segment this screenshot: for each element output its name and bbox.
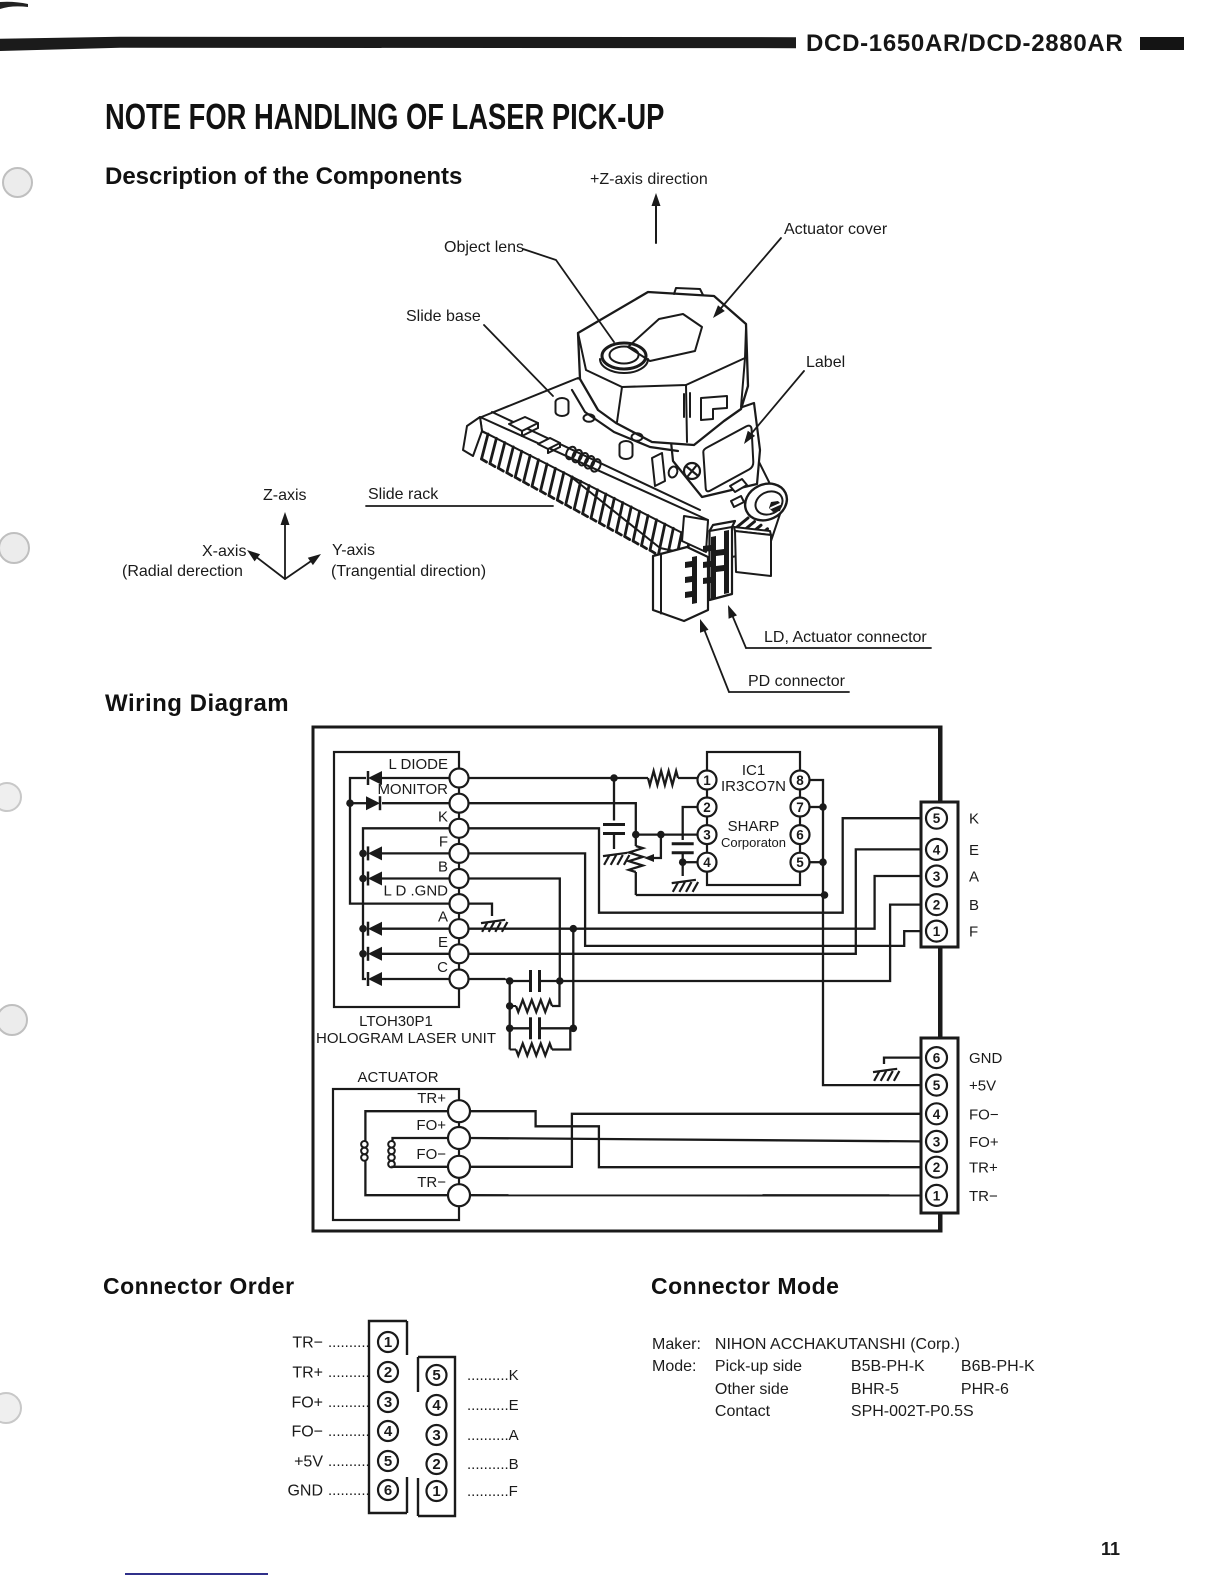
svg-text:..........A: ..........A [467,1427,519,1444]
photodiode F [368,846,382,860]
svg-text:1: 1 [432,1483,440,1500]
svg-text:4: 4 [384,1423,393,1440]
header corner mark [0,0,60,16]
connector J1 pin 1 [926,921,947,942]
connector order left housing (6-pin) [369,1321,407,1513]
PD connector block [653,547,708,621]
junction VR1 top [632,831,640,839]
wire diode E to pin [382,953,450,955]
connector J1 pin 3 [926,866,947,887]
leader Object lens [523,249,614,342]
page title [105,96,664,138]
wire GND pin to ground [884,1058,921,1064]
rail VR1 bottom to +5V junction [636,894,825,896]
wire to capacitor C4 [510,1027,531,1029]
motor cylinder inner [752,487,787,519]
wire diode F to pin [382,852,450,854]
motor cylinder outer [739,477,793,527]
object lens inner [610,347,639,364]
IC1 pin 5 [791,853,810,872]
object lens outer [602,343,646,369]
VR1 wiper arrow [653,835,661,858]
wire C2 to junction [682,853,684,863]
laser diode (L DIODE) [368,771,382,785]
junction pin7 bus [819,803,827,811]
svg-text:..........: .......... [328,1482,370,1499]
slide base front upper edge [492,412,700,510]
connector J2 (actuator side) box [921,1038,958,1213]
connector order right pin 1 (F) [427,1481,447,1501]
wire TR- to J2 pin 1 [470,1194,921,1197]
svg-text:4: 4 [432,1397,441,1414]
laser unit pin F [450,844,469,863]
connector order right pin 4 (E) [427,1395,447,1415]
wire net K [468,818,921,913]
hole punches [2,167,33,198]
leader Slide rack [366,505,553,507]
leader Slide base [484,325,553,396]
wire C4 to A tap [540,1027,574,1029]
ground C1 [603,853,629,865]
wire row F stub [363,852,366,854]
IC1 pin 3 [698,825,717,844]
wire L DIODE diode to pin [382,777,450,779]
variable resistor VR1 [629,846,643,872]
resistor R1 [648,771,678,785]
slide rack teeth [482,434,691,571]
Z axis arrow [284,517,286,579]
wire A tap down [572,929,574,1029]
junction wiper tie [657,831,665,839]
wire R2 up to B junction [552,981,560,1006]
wire tracking coil loop [365,1111,448,1141]
svg-text:5: 5 [384,1453,392,1470]
label sticker [703,426,753,492]
PICKUP DRAWING SVG [0,0,1224,720]
connector order left pin 6 (GND) [378,1480,398,1500]
actuator cover body [578,292,748,445]
connector order left pin 3 (FO+) [378,1392,398,1412]
laser unit pin L DIODE [450,769,469,788]
wire B net to upper connector pin 2 [560,905,921,981]
leader Actuator cover [716,238,781,314]
wire laser-unit bus LD/MONITOR/LD.GND [350,778,450,904]
capacitor C1 [603,823,625,826]
wire VR1 leads [635,835,637,846]
wire diode A to pin [382,928,450,930]
connector J1 pin 4 [926,839,947,860]
wire row B stub [363,877,366,879]
junction C2 / pin4 [679,858,687,866]
junction ladder left bottom [506,1025,514,1033]
connector order right pin 3 (A) [427,1425,447,1445]
capacitor C3 [529,970,532,992]
hologram laser unit box [334,752,459,1007]
junction bus2 at row A [359,925,367,933]
capacitor C2 [672,842,694,845]
wire TR+ to J2 pin 2 [470,1111,921,1167]
actuator box [333,1089,459,1220]
laser unit pin E [450,944,469,963]
svg-text:GND: GND [287,1483,323,1500]
border segment above upper connector [938,727,941,802]
wire diode B to pin [382,877,450,879]
wire MONITOR row to bus [350,802,366,804]
svg-text:..........: .......... [328,1394,370,1411]
wire IC pin 7 stub [809,806,823,808]
wire C node to C3 [510,980,531,982]
IC1 pin 6 [791,825,810,844]
focus coil L2 [388,1141,395,1167]
wire C3 to B junction [540,980,560,982]
LD actuator connector slots [703,530,729,600]
laser unit pin MONITOR [450,794,469,813]
connector J2 pin 1 [926,1185,947,1206]
wire focus coil loop [393,1138,449,1141]
junction on bus at MONITOR row [346,799,354,807]
junction bus2 at row B [359,875,367,883]
connector J2 pin 5 [926,1075,947,1096]
actuator cover side cutout [701,396,727,420]
connector order right housing (5-pin) [418,1357,455,1516]
ground C2 [672,880,698,892]
wire IC pin 8 bus [809,780,921,1085]
cover wedge [628,314,702,361]
wire FO- to J2 pin 4 [470,1114,921,1167]
wire junction to capacitor C1 [613,778,615,821]
svg-text:1: 1 [384,1334,392,1351]
leader Label [746,371,804,440]
slide base notch 2 [538,438,560,449]
ground LD.GND [481,920,507,932]
laser unit pin C [450,970,469,989]
connector order right pin 5 (K) [427,1365,447,1385]
wire row A stub [363,928,366,930]
wire IC pin 2 to C2 [683,807,698,840]
wire net B [468,879,560,982]
connector J2 pin 6 [926,1047,947,1068]
ground GND [873,1069,899,1081]
section: wiring diagram [105,690,289,718]
svg-text:..........: .......... [328,1334,370,1351]
svg-text:+5V: +5V [294,1454,323,1471]
page number [1101,1539,1120,1560]
svg-text:3: 3 [384,1394,392,1411]
wire MONITOR diode to pin [382,802,450,804]
section: description [105,163,462,191]
wire C1 to ground [613,834,615,850]
junction rail / IC bus [821,891,829,899]
photodiode C [368,972,382,986]
junction ladder left mid [506,1002,514,1010]
actuator cover side slits [683,394,685,417]
ladder left rail [509,981,511,1050]
connector order left pin 4 (FO&#8722;) [378,1421,398,1441]
IC1 pin 1 [698,771,717,790]
junction bus2 at row F [359,850,367,858]
svg-text:..........: .......... [328,1364,370,1381]
junction bus2 at row E [359,950,367,958]
label plate outer [670,403,760,497]
connector J1 (photodiode side) box [921,802,958,947]
leader LD, Actuator connector [730,610,746,648]
wire junction to ground [682,862,684,876]
svg-text:TR−: TR− [292,1335,323,1352]
label plate hole [667,465,679,478]
Y axis arrow [285,557,317,579]
wire IC pin 5 stub [809,861,823,863]
section: connector mode [651,1273,839,1300]
wire laser-unit bus K..C [363,828,450,979]
photodiode A [368,922,382,936]
svg-text:2: 2 [432,1456,440,1473]
svg-text:..........: .......... [328,1453,370,1470]
border segment between connectors [938,947,941,1038]
svg-text:FO−: FO− [291,1424,323,1441]
svg-text:2: 2 [384,1364,392,1381]
connector side box [734,527,771,535]
actuator cover step detail [674,288,703,295]
IC1 pin 4 [698,853,717,872]
X axis arrow [251,553,285,579]
PD connector slots [685,556,697,604]
actuator cover edge verticals [617,387,622,422]
svg-text:..........B: ..........B [467,1456,519,1473]
border segment below lower connector [938,1213,941,1231]
resistor R3 [516,1044,552,1056]
connector J1 pin 2 [926,894,947,915]
bottom blue line [125,1573,268,1575]
label plate bracket [652,453,665,486]
wire R3 up to A tap [552,1028,570,1049]
cover flange [572,390,678,451]
motor hex [769,501,782,512]
laser unit pin A [450,919,469,938]
svg-text:FO+: FO+ [291,1395,323,1412]
slide base platform [479,378,782,560]
actuator pin TR&#8722; [448,1184,470,1206]
op-amp IC1 IR3CO7N box [707,752,800,885]
wire R1 to IC pin 1 [678,777,698,779]
svg-text:5: 5 [432,1367,440,1384]
IC1 pin 7 [791,798,810,817]
svg-text:6: 6 [384,1482,392,1499]
connector J2 pin 2 [926,1157,947,1178]
junction pin5 bus [819,858,827,866]
actuator cover top face edge [578,328,746,387]
capacitor C4 [529,1017,532,1039]
actuator pin FO&#8722; [448,1156,470,1178]
motor tab 1 [730,479,747,492]
header model text [806,30,1123,58]
leader LD, Actuator connector underline [746,647,931,649]
motor tab 2 [731,496,744,507]
junction A ladder tap [570,925,578,933]
wire net C to ladder [468,978,505,980]
wire LD.GND to ground [468,904,492,916]
connector order left pin 5 (+5V) [378,1451,398,1471]
wire FO+ to J2 pin 3 [470,1138,921,1141]
laser unit pin B [450,869,469,888]
IC1 pin 8 [791,771,810,790]
leader PD connector underline [729,691,849,693]
slide base spring [564,445,602,473]
svg-text:..........K: ..........K [467,1367,519,1384]
slide rack end cap right [682,516,708,552]
flange hole 2 [632,433,643,441]
junction B / ladder [556,977,564,985]
svg-text:TR+: TR+ [292,1365,323,1382]
connector J2 pin 3 [926,1131,947,1152]
IC1 pin 2 [698,798,717,817]
wire net E [468,849,921,953]
laser unit pin L D .GND [450,894,469,913]
slide base peg 2 [620,441,633,459]
laser unit pin K [450,819,469,838]
wire net F [468,853,921,946]
svg-text:..........F: ..........F [467,1483,518,1500]
wire MONITOR row to IC pin 3 [468,803,698,834]
wire net A [468,876,921,929]
slide rack left end cap [463,417,482,456]
svg-text:..........E: ..........E [467,1397,519,1414]
wire L DIODE row to resistor [468,777,648,779]
section: connector order [103,1273,295,1300]
svg-text:3: 3 [432,1427,440,1444]
LD actuator connector block [710,521,736,600]
photodiode E [368,947,382,961]
photodiode B [368,872,382,886]
connector order left pin 1 (TR&#8722;) [378,1332,398,1352]
connector comb fingers [737,518,768,538]
monitor photodiode (MONITOR) [366,796,380,810]
junction L DIODE / C1 [610,774,618,782]
wire diode C to pin [382,978,450,980]
tracking coil L1 [361,1141,368,1161]
label plate screw [684,463,700,479]
connector J2 pin 4 [926,1103,947,1124]
+Z axis direction arrow [655,197,657,243]
junction C4 / A tap [570,1025,578,1033]
actuator pin TR+ [448,1100,470,1122]
connector order left pin 2 (TR+) [378,1362,398,1382]
flange hole 1 [584,414,595,422]
leader PD connector [702,624,729,692]
svg-text:..........: .......... [328,1423,370,1440]
slide base peg 1 [556,398,569,416]
header bar [0,0,1224,60]
connector J1 pin 5 [926,808,947,829]
wire junction to IC pin 4 [683,861,698,863]
slide rack bar top band [480,417,708,545]
slide base notch 1 [509,417,538,431]
junction C ladder left top [506,977,514,985]
lens recess arc [600,359,648,373]
wiring diagram outer border [313,727,941,1231]
wire row E stub [363,953,366,955]
actuator pin FO+ [448,1127,470,1149]
resistor R2 [516,1000,552,1012]
connector order right pin 2 (B) [427,1454,447,1474]
